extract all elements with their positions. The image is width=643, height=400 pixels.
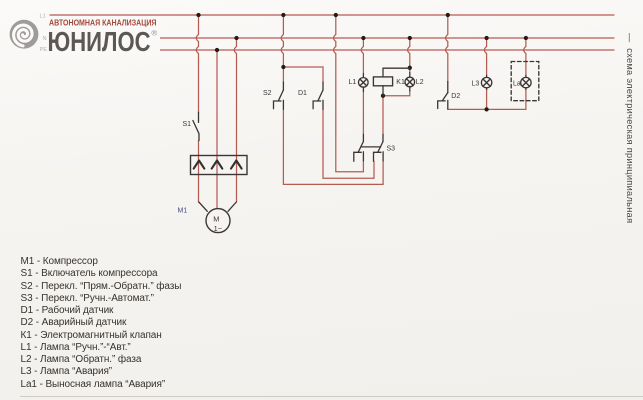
svg-text:1~: 1~ xyxy=(214,224,222,233)
svg-text:L1: L1 xyxy=(349,79,357,86)
svg-text:PE: PE xyxy=(40,47,48,53)
svg-text:М: М xyxy=(213,215,219,224)
svg-text:D2: D2 xyxy=(451,93,460,100)
svg-text:L3: L3 xyxy=(472,80,480,87)
svg-text:S1: S1 xyxy=(183,121,192,128)
svg-text:S2: S2 xyxy=(263,90,272,97)
svg-text:K1: K1 xyxy=(396,79,405,86)
svg-text:D1: D1 xyxy=(298,90,307,97)
svg-text:L2: L2 xyxy=(416,79,424,86)
svg-text:M1: M1 xyxy=(178,207,188,214)
svg-text:S3: S3 xyxy=(387,146,396,153)
svg-text:ЮНИЛОС: ЮНИЛОС xyxy=(48,26,151,57)
svg-text:N: N xyxy=(43,36,47,42)
svg-text:L1: L1 xyxy=(40,14,46,20)
svg-text:®: ® xyxy=(152,29,158,38)
